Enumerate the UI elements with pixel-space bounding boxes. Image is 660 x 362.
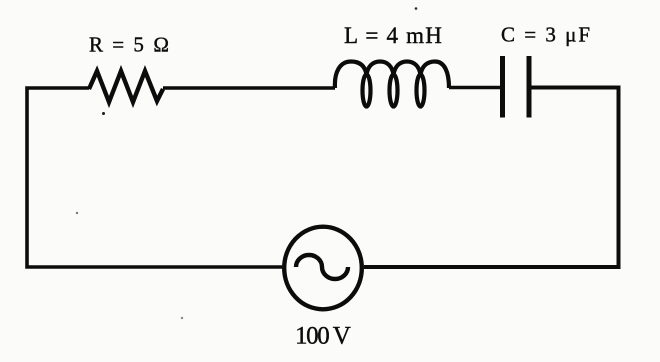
scan speck: [415, 7, 418, 10]
scan speck: [76, 212, 78, 214]
inductor L1 loop 3: [417, 75, 425, 107]
capacitor C1 left plate: [500, 56, 505, 118]
scan speck: [102, 112, 105, 115]
inductor L1 loop 1: [363, 75, 371, 107]
capacitor C1 right plate: [527, 56, 532, 118]
resistor R1 zigzag: [89, 71, 163, 102]
scan speck: [181, 317, 183, 319]
wire: capacitor to right side down to bottom, to AC source: [364, 88, 619, 268]
inductor L1 arches: [335, 62, 449, 89]
AC source V1 circle: [284, 227, 362, 310]
wire: between inductor and capacitor: [449, 86, 500, 90]
wire: left vertical + bottom-left + top-left run: [27, 88, 282, 267]
wire: top middle between resistor and inductor: [163, 86, 335, 90]
svg-text:L = 4 mH: L = 4 mH: [344, 23, 443, 48]
svg-text:R = 5 Ω: R = 5 Ω: [89, 33, 171, 57]
svg-text:100 V: 100 V: [295, 323, 351, 350]
AC source V1 sine symbol: [296, 255, 348, 279]
svg-text:C = 3 μF: C = 3 μF: [501, 23, 592, 47]
inductor L1 loop 2: [390, 75, 398, 107]
